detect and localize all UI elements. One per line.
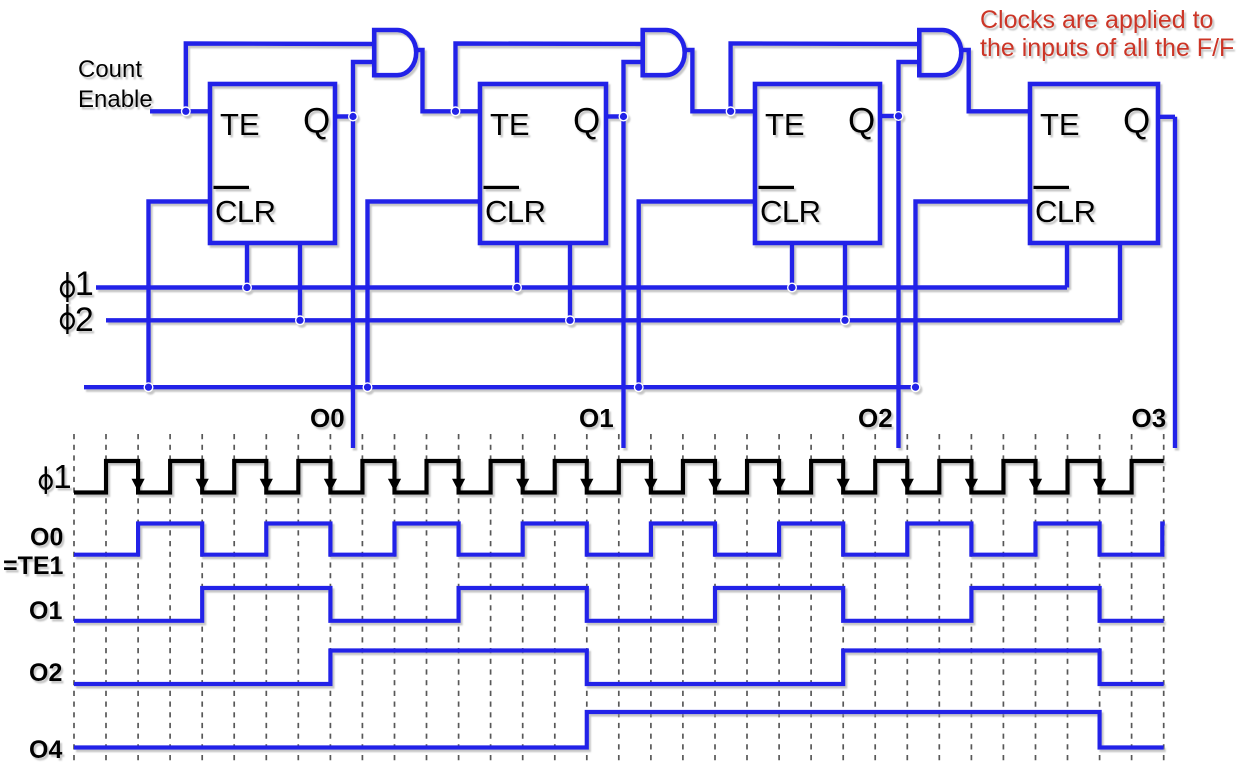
svg-text:Q: Q — [303, 102, 330, 141]
svg-text:TE: TE — [490, 107, 530, 142]
svg-text:Q: Q — [1123, 102, 1150, 141]
svg-text:the inputs of all the F/F: the inputs of all the F/F — [980, 34, 1234, 62]
svg-text:1: 1 — [53, 458, 71, 495]
svg-text:CLR: CLR — [760, 194, 821, 229]
svg-text:CLR: CLR — [1035, 194, 1096, 229]
svg-text:1: 1 — [75, 265, 94, 303]
svg-text:CLR: CLR — [485, 194, 546, 229]
svg-text:CLR: CLR — [215, 194, 276, 229]
svg-text:O2: O2 — [858, 403, 893, 433]
svg-text:O2: O2 — [29, 659, 62, 687]
svg-text:Q: Q — [573, 102, 600, 141]
svg-text:Count: Count — [78, 56, 142, 83]
svg-text:O1: O1 — [29, 597, 62, 625]
svg-text:2: 2 — [75, 301, 94, 339]
svg-text:O0: O0 — [310, 403, 345, 433]
svg-text:TE: TE — [765, 107, 805, 142]
svg-text:O1: O1 — [579, 403, 614, 433]
svg-text:Clocks are applied to: Clocks are applied to — [980, 6, 1213, 34]
svg-text:O3: O3 — [1132, 403, 1167, 433]
svg-text:TE: TE — [1040, 107, 1080, 142]
svg-text:O0: O0 — [30, 524, 63, 552]
svg-text:=TE1: =TE1 — [3, 552, 64, 580]
svg-text:O4: O4 — [29, 736, 62, 762]
svg-text:TE: TE — [220, 107, 260, 142]
svg-text:Enable: Enable — [78, 86, 153, 113]
svg-text:Q: Q — [848, 102, 875, 141]
